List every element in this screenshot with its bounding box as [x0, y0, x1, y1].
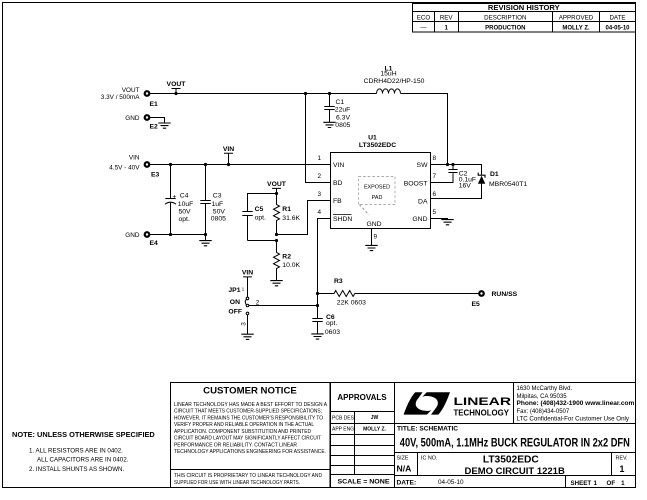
title block — [395, 383, 636, 488]
svg-text:PAD: PAD — [372, 195, 383, 201]
svg-text:SHEET: SHEET — [571, 480, 592, 487]
svg-text:DESCRIPTION: DESCRIPTION — [484, 14, 526, 21]
revision history table — [413, 3, 636, 32]
svg-text:JW: JW — [371, 415, 379, 421]
net flag VOUT above R1 — [267, 181, 287, 194]
svg-text:R3: R3 — [334, 278, 343, 285]
svg-text:VIN: VIN — [129, 154, 140, 161]
svg-text:6: 6 — [433, 191, 437, 198]
node junction C3 top — [204, 163, 207, 166]
svg-text:R1: R1 — [282, 206, 291, 213]
svg-text:50V: 50V — [179, 209, 192, 216]
svg-text:GND: GND — [125, 115, 140, 122]
node junction SW-C2 — [451, 163, 454, 166]
node junction C5 bottom — [275, 239, 278, 242]
svg-text:C5: C5 — [255, 206, 264, 213]
net flag VIN on rail — [223, 146, 234, 166]
pin 6 DA — [418, 191, 436, 206]
svg-text:10uF: 10uF — [178, 201, 194, 208]
wire C3 bottom to ground — [205, 235, 207, 241]
svg-text:1: 1 — [317, 155, 321, 162]
svg-text:1uF: 1uF — [212, 201, 224, 208]
svg-text:JP1: JP1 — [228, 287, 240, 294]
pin 9 GND stub — [372, 229, 378, 246]
svg-text:Fax: (408)434-0507: Fax: (408)434-0507 — [517, 409, 570, 415]
svg-text:0805: 0805 — [211, 216, 226, 223]
svg-text:RUN/SS: RUN/SS — [492, 291, 518, 298]
svg-text:LT3502EDC: LT3502EDC — [483, 455, 540, 466]
svg-text:OF: OF — [607, 480, 616, 487]
terminal E5 RUN/SS — [472, 291, 518, 308]
customer notice box — [171, 383, 331, 488]
ground below R2 — [270, 281, 282, 286]
svg-text:GND: GND — [125, 232, 140, 239]
svg-text:LT3502EDC: LT3502EDC — [359, 142, 396, 149]
resistor R2 — [274, 241, 301, 281]
terminal E3 VIN — [109, 154, 159, 178]
op-amp U1 LT3502EDC body — [331, 135, 431, 229]
ground E2 — [158, 123, 170, 128]
wire VIN rail — [150, 164, 331, 166]
capacitor C2 — [431, 165, 477, 190]
node junction C4 top — [169, 163, 172, 166]
svg-text:04-05-10: 04-05-10 — [438, 479, 464, 486]
wire SHDN to jumper net — [318, 219, 331, 319]
address block — [517, 386, 635, 422]
svg-text:TITLE: SCHEMATIC: TITLE: SCHEMATIC — [397, 425, 458, 432]
pin 7 BOOST — [404, 173, 437, 187]
pin 1 VIN — [317, 155, 344, 169]
svg-text:BD: BD — [333, 180, 343, 187]
pin 4 SHDN — [317, 209, 352, 223]
svg-text:3: 3 — [241, 322, 248, 326]
svg-text:MOLLY Z.: MOLLY Z. — [363, 426, 386, 432]
node junction C4 bottom — [169, 233, 172, 236]
svg-text:APP ENG.: APP ENG. — [332, 427, 356, 433]
svg-text:U1: U1 — [368, 135, 377, 142]
ground below C6 — [311, 334, 323, 339]
svg-text:1: 1 — [620, 464, 625, 474]
svg-text:SW: SW — [417, 162, 429, 169]
svg-text:16V: 16V — [459, 183, 472, 190]
svg-text:2: 2 — [317, 173, 321, 180]
pin 2 BD — [317, 173, 342, 187]
svg-text:1: 1 — [593, 480, 597, 487]
svg-text:opt.: opt. — [255, 215, 266, 222]
svg-text:CIRCUIT THAT MEETS CUSTOMER-SU: CIRCUIT THAT MEETS CUSTOMER-SUPPLIED SPE… — [174, 409, 322, 415]
wire JP1 pin3 to ground — [247, 315, 249, 335]
terminal E1 VOUT — [101, 87, 158, 108]
svg-text:opt.: opt. — [179, 216, 190, 223]
svg-text:DATE:: DATE: — [397, 479, 417, 486]
svg-text:SUPPLIED FOR USE WITH LINEAR T: SUPPLIED FOR USE WITH LINEAR TECHNOLOGY … — [174, 480, 300, 486]
capacitor C3 — [200, 165, 226, 235]
svg-text:GND: GND — [366, 221, 381, 228]
svg-text:1. ALL RESISTORS ARE IN 0402.: 1. ALL RESISTORS ARE IN 0402. — [29, 447, 123, 454]
svg-text:DA: DA — [418, 199, 428, 206]
svg-text:ON: ON — [230, 299, 240, 306]
svg-text:SIZE: SIZE — [397, 456, 409, 462]
pin 8 SW — [417, 155, 437, 169]
wire JP1 pin2 to net — [249, 305, 318, 307]
terminal E4 GND — [125, 232, 158, 247]
svg-text:E2: E2 — [150, 124, 159, 131]
svg-text:C4: C4 — [180, 193, 189, 200]
Linear Technology logo — [404, 392, 511, 417]
svg-text:VERIFY PROPER AND RELIABLE OPE: VERIFY PROPER AND RELIABLE OPERATION IN … — [174, 422, 314, 428]
svg-text:31.6K: 31.6K — [282, 215, 300, 222]
node junction BD drop — [304, 92, 307, 95]
node junction C3 bottom — [204, 233, 207, 236]
capacitor C5 — [242, 206, 266, 240]
svg-text:PCB DES.: PCB DES. — [332, 415, 355, 421]
svg-text:E4: E4 — [150, 240, 159, 247]
note: unless otherwise specified — [12, 430, 155, 473]
ground below JP1 — [241, 334, 253, 339]
svg-text:VOUT: VOUT — [267, 181, 287, 188]
node junction FB — [275, 233, 278, 236]
exposed pad of U1 — [359, 177, 396, 228]
pin 3 FB — [317, 191, 342, 205]
svg-text:5: 5 — [433, 209, 437, 216]
svg-text:7: 7 — [433, 173, 437, 180]
svg-text:1630 McCarthy Blvd.: 1630 McCarthy Blvd. — [517, 386, 573, 392]
svg-text:opt.: opt. — [326, 320, 337, 327]
svg-text:0805: 0805 — [335, 122, 350, 129]
svg-text:TECHNOLOGY APPLICATIONS ENGINE: TECHNOLOGY APPLICATIONS ENGINEERING FOR … — [174, 449, 326, 455]
approvals table — [331, 383, 395, 488]
svg-text:D1: D1 — [490, 171, 499, 178]
capacitor C6 — [312, 314, 340, 336]
svg-text:CUSTOMER NOTICE: CUSTOMER NOTICE — [203, 386, 297, 397]
svg-text:THIS CIRCUIT IS PROPRIETARY TO: THIS CIRCUIT IS PROPRIETARY TO LINEAR TE… — [174, 473, 322, 479]
wire GND rail — [150, 234, 206, 236]
svg-text:E3: E3 — [151, 171, 160, 178]
svg-text:+: + — [173, 193, 177, 200]
svg-text:3: 3 — [317, 191, 321, 198]
svg-text:FB: FB — [333, 198, 342, 205]
svg-text:MOLLY Z.: MOLLY Z. — [562, 25, 590, 31]
node junction R3 tee — [316, 292, 319, 295]
svg-text:IC NO.: IC NO. — [421, 455, 437, 461]
svg-text:ECO: ECO — [417, 14, 431, 21]
capacitor C4 polarized — [165, 165, 193, 235]
svg-text:0603: 0603 — [325, 329, 340, 336]
svg-text:SCALE = NONE: SCALE = NONE — [338, 479, 391, 486]
svg-text:MBR0540T1: MBR0540T1 — [489, 181, 527, 188]
svg-text:3.3V / 500mA: 3.3V / 500mA — [101, 94, 140, 101]
svg-text:50V: 50V — [213, 209, 226, 216]
svg-text:EXPOSED: EXPOSED — [364, 185, 390, 191]
svg-text:REVISION HISTORY: REVISION HISTORY — [488, 3, 560, 12]
svg-text:VIN: VIN — [242, 269, 253, 276]
jumper JP1 — [228, 286, 259, 326]
svg-text:PERFORMANCE OR RELIABILITY. C: PERFORMANCE OR RELIABILITY. CONTACT LINE… — [174, 442, 297, 448]
svg-text:REV: REV — [440, 14, 454, 21]
svg-text:TECHNOLOGY: TECHNOLOGY — [454, 409, 510, 418]
svg-text:C3: C3 — [213, 193, 222, 200]
svg-text:4: 4 — [317, 209, 321, 216]
svg-text:LINEAR: LINEAR — [454, 396, 512, 408]
svg-text:VOUT: VOUT — [167, 81, 187, 88]
svg-text:REV.: REV. — [615, 456, 627, 462]
svg-text:CDRH4D22/HP-150: CDRH4D22/HP-150 — [364, 78, 425, 85]
svg-text:VIN: VIN — [223, 146, 234, 153]
svg-text:DEMO CIRCUIT 1221B: DEMO CIRCUIT 1221B — [465, 466, 565, 477]
svg-text:LINEAR TECHNOLOGY HAS MADE A B: LINEAR TECHNOLOGY HAS MADE A BEST EFFORT… — [174, 402, 327, 408]
svg-text:C1: C1 — [336, 99, 345, 106]
svg-text:CIRCUIT BOARD LAYOUT MAY SIGNI: CIRCUIT BOARD LAYOUT MAY SIGNIFICANTLY A… — [174, 436, 322, 442]
svg-text:10.0K: 10.0K — [282, 262, 300, 269]
capacitor C1 — [324, 94, 350, 130]
net flag VOUT on rail — [167, 81, 187, 95]
svg-text:APPROVED: APPROVED — [559, 14, 594, 21]
svg-text:Milpitas, CA 95035: Milpitas, CA 95035 — [517, 394, 568, 400]
wire E2 to ground — [150, 118, 165, 124]
svg-text:DATE: DATE — [609, 14, 625, 21]
terminal E2 GND — [125, 115, 158, 131]
resistor R1 — [274, 194, 301, 235]
node junction R1 top — [275, 192, 278, 195]
svg-text:9: 9 — [374, 234, 378, 241]
svg-text:1: 1 — [621, 480, 625, 487]
svg-text:40V, 500mA, 1.1MHz BUCK REGULA: 40V, 500mA, 1.1MHz BUCK REGULATOR IN 2x2… — [400, 435, 630, 449]
svg-text:N/A: N/A — [397, 464, 412, 474]
svg-text:NOTE: UNLESS OTHERWISE SPECIFI: NOTE: UNLESS OTHERWISE SPECIFIED — [12, 430, 155, 439]
svg-text:VIN: VIN — [333, 162, 344, 169]
svg-text:APPROVALS: APPROVALS — [337, 393, 387, 402]
svg-text:04-05-10: 04-05-10 — [605, 25, 630, 31]
svg-text:8: 8 — [433, 155, 437, 162]
diode D1 MBR0540T1 — [431, 171, 528, 198]
net flag VIN above JP1 — [242, 269, 253, 297]
svg-text:GND: GND — [412, 216, 427, 223]
ground below C3 — [199, 241, 211, 246]
svg-text:ALL CAPACITORS ARE IN 0402.: ALL CAPACITORS ARE IN 0402. — [37, 457, 129, 464]
svg-text:4.5V - 40V: 4.5V - 40V — [109, 165, 140, 172]
svg-text:OFF: OFF — [228, 308, 242, 315]
resistor R3 — [318, 278, 480, 307]
wire VOUT rail to BD pin2 — [306, 94, 331, 183]
ground below pin 9 — [365, 245, 377, 250]
inductor L1 — [364, 65, 425, 93]
ground at pin 5 — [441, 220, 453, 225]
wire C5 bottom branch — [248, 240, 277, 242]
svg-text:LTC Confidential-For Customer: LTC Confidential-For Customer Use Only — [517, 416, 630, 422]
svg-text:HOWEVER, IT REMAINS THE CUSTOM: HOWEVER, IT REMAINS THE CUSTOMER'S RESPO… — [174, 415, 324, 421]
svg-text:Phone: (408)432-1900 www.line: Phone: (408)432-1900 www.linear.com — [517, 401, 635, 407]
svg-text:2. INSTALL SHUNTS AS SHOWN.: 2. INSTALL SHUNTS AS SHOWN. — [29, 466, 125, 473]
node junction C1 — [328, 92, 331, 95]
svg-text:15uH: 15uH — [380, 71, 396, 78]
wire FB to pin3 — [277, 201, 331, 235]
svg-text:SHDN: SHDN — [333, 216, 352, 223]
svg-text:22K 0603: 22K 0603 — [337, 300, 366, 307]
wire GND pin5 — [431, 219, 448, 220]
ground below C1 — [323, 122, 335, 127]
svg-text:—: — — [420, 24, 427, 31]
svg-text:E1: E1 — [150, 101, 159, 108]
svg-text:R2: R2 — [282, 253, 291, 260]
wire SW pin to D1 — [431, 165, 482, 176]
svg-text:E5: E5 — [472, 301, 481, 308]
svg-text:PRODUCTION: PRODUCTION — [485, 25, 525, 31]
svg-text:APPLICATION. COMPONENT SUBSTI: APPLICATION. COMPONENT SUBSTITUTION AND … — [174, 429, 311, 435]
svg-text:22uF: 22uF — [335, 107, 351, 114]
wire C5 top branch — [248, 194, 277, 212]
svg-text:1: 1 — [444, 24, 448, 31]
pin 5 GND — [412, 209, 436, 223]
node junction SW-L1 — [446, 163, 449, 166]
node junction JP1 tee — [316, 304, 319, 307]
wire L1 to SW — [401, 94, 448, 165]
wire VOUT rail — [150, 93, 377, 95]
svg-text:6.3V: 6.3V — [336, 114, 350, 121]
svg-text:BOOST: BOOST — [404, 180, 428, 187]
